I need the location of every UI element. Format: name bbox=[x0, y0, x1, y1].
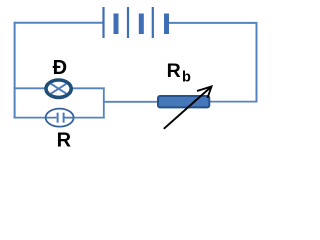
battery cell plate long 1 bbox=[102, 7, 104, 38]
resistor R ellipse bbox=[46, 109, 74, 127]
battery cell plate long 2 bbox=[127, 7, 129, 38]
wire right vertical bbox=[256, 22, 258, 102]
svg-text:R: R bbox=[57, 130, 72, 150]
wire junction vertical bbox=[103, 87, 105, 118]
svg-text:b: b bbox=[182, 70, 191, 86]
wire middle to rheostat bbox=[104, 101, 158, 103]
wire lamp branch left bbox=[14, 87, 46, 89]
rheostat arrow bbox=[164, 87, 212, 129]
resistor R inner leads and plates bbox=[46, 117, 74, 119]
battery cell plate short 2 bbox=[139, 14, 144, 35]
svg-text:Đ: Đ bbox=[53, 57, 67, 79]
lamp D ellipse bbox=[46, 80, 71, 97]
wire top-right segment bbox=[169, 22, 258, 24]
battery cell plate long 3 bbox=[152, 7, 154, 38]
svg-text:R: R bbox=[167, 60, 181, 82]
wire top-left segment bbox=[14, 22, 104, 24]
lamp D cross bbox=[51, 84, 66, 94]
rheostat Rb body bbox=[158, 96, 209, 107]
wire left vertical bbox=[14, 22, 16, 119]
wire rheostat to right bbox=[208, 101, 257, 103]
battery cell plate short 3 bbox=[164, 14, 169, 35]
battery cell plate short 1 bbox=[114, 14, 119, 35]
wire R branch left bbox=[14, 117, 47, 119]
wire lamp branch right bbox=[71, 87, 105, 89]
wire R branch right bbox=[72, 117, 105, 119]
